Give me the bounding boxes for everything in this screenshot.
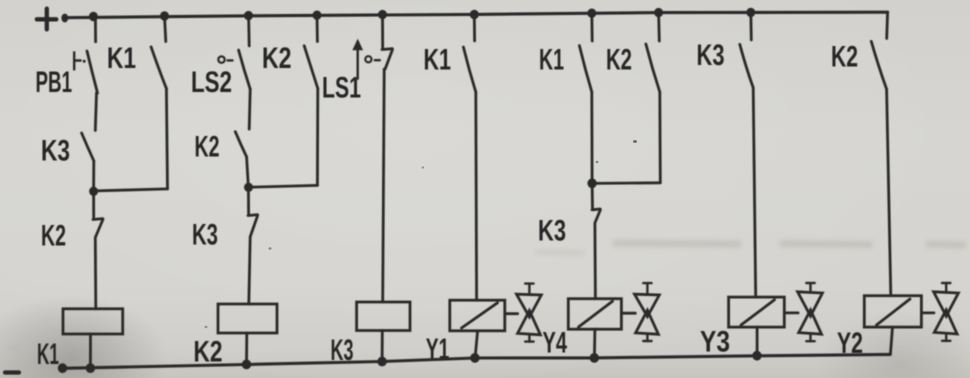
svg-text:Y2: Y2 <box>837 327 863 360</box>
svg-text:K3: K3 <box>331 334 354 367</box>
svg-text:K2: K2 <box>195 130 220 163</box>
svg-text:K2: K2 <box>606 44 632 77</box>
svg-text:K1: K1 <box>37 338 59 371</box>
svg-text:K1: K1 <box>107 42 136 75</box>
svg-text:Y1: Y1 <box>426 333 450 366</box>
svg-text:K3: K3 <box>697 39 725 72</box>
svg-text:K2: K2 <box>831 40 858 73</box>
svg-text:K2: K2 <box>41 220 66 253</box>
svg-text:K2: K2 <box>262 42 292 75</box>
svg-text:K3: K3 <box>538 215 566 248</box>
svg-text:PB1: PB1 <box>36 66 73 99</box>
svg-text:K3: K3 <box>41 134 70 167</box>
svg-text:K1: K1 <box>539 44 564 77</box>
svg-text:K3: K3 <box>192 219 218 252</box>
svg-text:Y4: Y4 <box>543 327 568 360</box>
svg-text:K2: K2 <box>194 335 223 368</box>
svg-text:K1: K1 <box>424 44 452 77</box>
svg-text:Y3: Y3 <box>700 325 730 358</box>
svg-text:LS2: LS2 <box>191 66 232 99</box>
svg-text:LS1: LS1 <box>322 72 361 105</box>
